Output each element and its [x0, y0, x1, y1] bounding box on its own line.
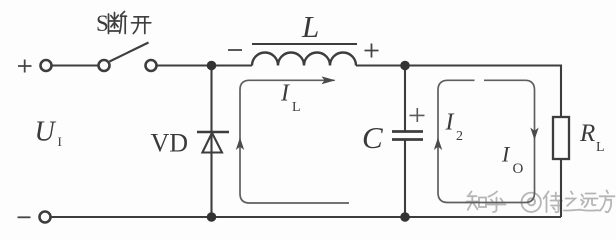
svg-text:I: I — [445, 110, 455, 136]
svg-text:L: L — [301, 9, 319, 44]
svg-text:S: S — [96, 11, 109, 36]
svg-text:O: O — [513, 161, 524, 177]
svg-text:C: C — [362, 120, 383, 155]
svg-text:VD: VD — [151, 129, 189, 158]
svg-text:U: U — [35, 117, 57, 148]
svg-text:L: L — [596, 140, 605, 155]
svg-text:L: L — [292, 100, 301, 115]
svg-text:R: R — [579, 120, 595, 147]
svg-text:I: I — [280, 81, 290, 107]
svg-text:2: 2 — [456, 129, 463, 144]
svg-text:I: I — [501, 142, 511, 167]
svg-text:I: I — [58, 134, 62, 149]
